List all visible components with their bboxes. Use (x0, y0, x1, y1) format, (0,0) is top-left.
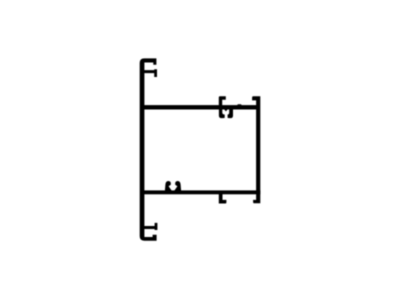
left wall with top gasket hook and bottom gasket hook (140, 58, 158, 240)
bottom-left stub with right-pointing foot under bottom web (219, 193, 227, 204)
small ridge on top of top web (237, 103, 242, 106)
snap-fit left prong below top web (219, 109, 225, 119)
snap-fit right prong below top web (228, 109, 233, 119)
V ridge under top web between prongs (224, 110, 227, 112)
bottom web (horizontal bar) (144, 190, 261, 194)
right wall with top flange and bottom foot (252, 96, 260, 203)
screw boss right prong above bottom web (174, 181, 181, 190)
screw boss left prong above bottom web (165, 181, 172, 190)
clip stub above top web with right flange (219, 96, 226, 105)
top web (horizontal bar) (144, 105, 258, 109)
